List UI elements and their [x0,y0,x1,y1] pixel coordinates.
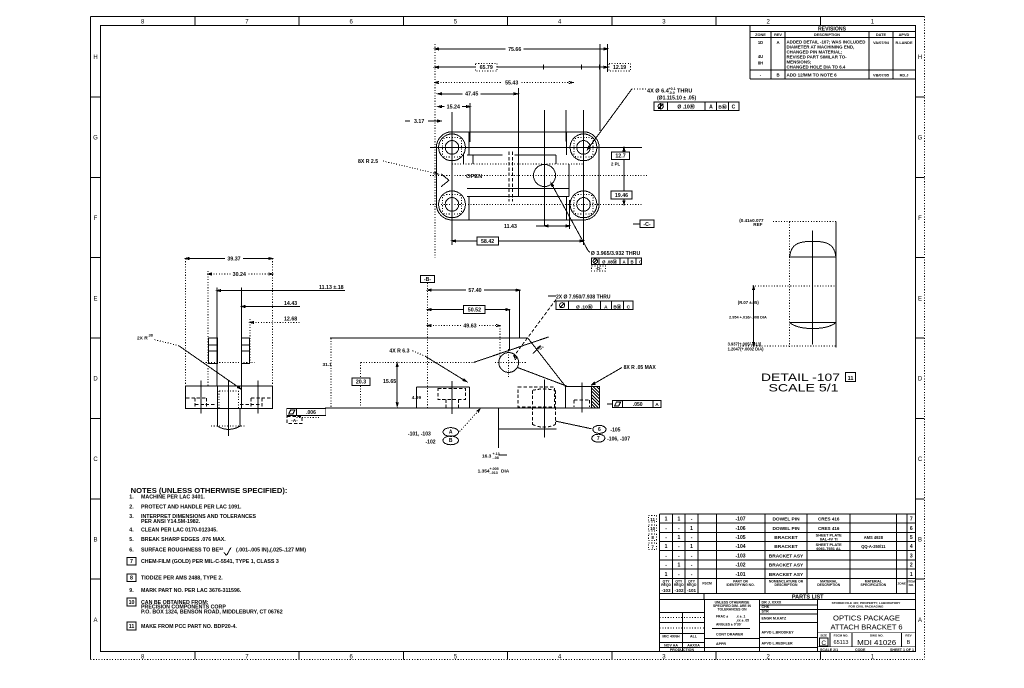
svg-text:5: 5 [910,535,913,541]
plate outline [436,132,599,220]
dim 12.68 [250,321,300,323]
svg-text:RD.J: RD.J [900,73,909,77]
svg-text:10: 10 [129,600,135,606]
sheet outer border [91,16,925,18]
leaders to holes [514,300,556,357]
lower dims 16.3 and 1.354 [497,429,499,448]
svg-text:-102: -102 [736,562,746,568]
svg-text:BRACKET ASY: BRACKET ASY [769,553,804,559]
svg-text:-101: -101 [687,588,697,593]
svg-text:CHEM-FILM (GOLD) PER MIL-C-554: CHEM-FILM (GOLD) PER MIL-C-5541, TYPE 1,… [141,559,279,565]
svg-text:P.O. BOX 1324, BENSON ROAD, MI: P.O. BOX 1324, BENSON ROAD, MIDDLEBURY, … [141,610,283,616]
svg-text:47.45: 47.45 [465,92,478,98]
svg-text:CRES 416: CRES 416 [818,526,840,531]
svg-text:APVD: APVD [899,33,910,37]
svg-text:1D: 1D [758,40,763,45]
svg-text:NO.: NO. [909,583,915,587]
svg-text:DATE: DATE [876,33,887,37]
detail dim line [753,286,755,346]
svg-text:1: 1 [665,544,668,550]
svg-text:11.43: 11.43 [504,224,517,230]
svg-text:A: A [776,40,779,45]
svg-text:REV: REV [905,633,911,637]
svg-text:1.2047(+.0002 DIA): 1.2047(+.0002 DIA) [728,346,765,351]
dome base line [790,256,836,258]
pin centerline [812,230,814,344]
balloons 6 and 7 [556,421,592,429]
bar tick lines [463,155,465,164]
svg-text:19.46: 19.46 [615,193,628,199]
svg-text:B: B [918,537,922,543]
svg-text:MACHINE PER LAC 3401.: MACHINE PER LAC 3401. [141,494,205,500]
svg-text:G: G [93,136,98,142]
dim 47.45 [438,93,518,95]
svg-text:AMS 4928: AMS 4928 [864,535,884,540]
svg-text:REQD: REQD [674,583,684,587]
svg-text:2.: 2. [129,504,134,510]
svg-text:F: F [94,216,98,222]
svg-text:9.: 9. [129,588,134,594]
svg-text:6.: 6. [129,547,134,553]
svg-text:DESCRIPTION: DESCRIPTION [814,33,840,37]
svg-text:75.66: 75.66 [508,47,521,53]
svg-text:NOV AA: NOV AA [664,643,678,647]
svg-text:4X Ø 6.4: 4X Ø 6.4 [647,88,670,94]
svg-text:1.354: 1.354 [478,468,490,474]
hidden press-fit hole dotted [219,390,238,392]
svg-text:6: 6 [598,427,601,433]
svg-text:APVD L.BRODKEY: APVD L.BRODKEY [762,631,795,635]
svg-text:20.3: 20.3 [356,380,366,386]
svg-text:PROTECT AND HANDLE PER LAC 109: PROTECT AND HANDLE PER LAC 1091. [141,504,242,510]
svg-text:A: A [709,105,713,111]
svg-text:MARK PART NO. PER LAC 3676-311: MARK PART NO. PER LAC 3676-311596. [141,588,242,594]
pin bottom arc [790,323,836,329]
svg-text:C: C [918,457,923,463]
svg-text:C: C [821,640,826,647]
svg-text:-0.0: -0.0 [669,91,675,95]
svg-text:11: 11 [650,517,655,522]
svg-text:E: E [93,296,97,302]
svg-text:OPEN: OPEN [466,174,482,180]
hole circle [499,353,519,373]
svg-text:-B-: -B- [424,277,431,283]
center post edges [216,288,218,387]
svg-text:7: 7 [910,517,913,523]
svg-text:DESCRIPTION: DESCRIPTION [775,583,799,587]
svg-text:ALL: ALL [690,635,698,639]
svg-text:6AL-4V TI: 6AL-4V TI [820,538,838,542]
note 2X dia 7.950 holes [548,295,556,297]
svg-text:2X Ø 7.950/7.938 THRU: 2X Ø 7.950/7.938 THRU [556,294,611,300]
svg-text:DOWEL PIN: DOWEL PIN [772,517,800,523]
svg-text:65113: 65113 [834,640,849,646]
svg-text:Ø .08Ⓜ: Ø .08Ⓜ [602,258,618,265]
svg-text:Ø 3.965/3.932 THRU: Ø 3.965/3.932 THRU [591,251,641,257]
corner bosses: counterbore circles [439,134,466,161]
slot bar edges [467,154,502,156]
svg-text:-101: -101 [736,572,746,578]
dim 20.3 boxed [352,378,370,386]
svg-text:1: 1 [910,572,913,578]
svg-text:ADD 12/MM TO NOTE 6: ADD 12/MM TO NOTE 6 [787,72,838,77]
svg-text:-105: -105 [610,427,620,433]
svg-text:39.37: 39.37 [227,256,240,262]
svg-text:1: 1 [690,544,693,550]
svg-text:VB/07/95: VB/07/95 [873,73,890,77]
side view body hidden outline [184,259,186,387]
svg-text:AAXXA: AAXXA [687,643,700,647]
revision block [749,26,751,80]
svg-text:6: 6 [910,526,913,532]
svg-text:1: 1 [690,526,693,532]
dim 12.7 boxed 2 PL [623,147,625,204]
dim 58.42 boxed [452,240,584,242]
svg-text:58.42: 58.42 [481,239,494,245]
svg-text:FSCM NO.: FSCM NO. [834,633,849,637]
svg-text:DWG NO.: DWG NO. [870,633,884,637]
ref line bottom [740,345,836,347]
svg-text:CHANGED HOLE DIA TO 6.4: CHANGED HOLE DIA TO 6.4 [787,65,846,70]
svg-text:-104: -104 [736,544,746,550]
main outline [330,337,528,339]
svg-text:30.24: 30.24 [233,272,246,278]
svg-text:APVD L.REDFLER: APVD L.REDFLER [762,642,794,646]
svg-text:FOR CIVIL PACKAGING: FOR CIVIL PACKAGING [849,604,885,608]
svg-text:4U: 4U [758,54,763,59]
svg-text:SURFACE ROUGHNESS TO BE: SURFACE ROUGHNESS TO BE [141,547,220,553]
svg-text:8X R .05 MAX: 8X R .05 MAX [624,365,657,371]
dim 11.13 +-.18 [217,290,345,292]
dim 14.43 [242,306,301,308]
svg-text:H: H [93,55,97,61]
svg-text:E: E [918,296,922,302]
svg-text:PARTS LIST: PARTS LIST [792,595,824,601]
svg-text:A: A [93,618,97,624]
svg-text:ENGR M.KATZ: ENGR M.KATZ [762,617,787,621]
base plate [185,386,272,409]
svg-text:REQD: REQD [661,583,671,587]
svg-text:8H: 8H [758,61,763,66]
svg-text:B: B [630,259,633,264]
svg-text:-101, -103: -101, -103 [408,431,431,437]
svg-text:CODE: CODE [855,648,866,652]
svg-text:65.79: 65.79 [480,65,493,71]
svg-text:FSCM: FSCM [702,581,712,585]
svg-text:55.43: 55.43 [505,80,518,86]
svg-text:MAKE FROM PCC PART NO. BDP20-4: MAKE FROM PCC PART NO. BDP20-4. [141,624,237,630]
svg-text:ANGLES ± 0°30´: ANGLES ± 0°30´ [716,623,742,627]
svg-text:1: 1 [677,535,680,541]
svg-text:BRACKET: BRACKET [774,535,798,541]
svg-text:3: 3 [910,553,913,559]
svg-text:DESCRIPTION: DESCRIPTION [817,583,841,587]
hidden pocket detail [438,389,466,400]
svg-text:Ø .10Ⓜ: Ø .10Ⓜ [677,104,694,111]
dim 50.52 boxed [428,309,510,311]
zone tick marks and labels [194,17,196,26]
section hatch [592,386,600,408]
svg-text:MIC 4XNH: MIC 4XNH [662,635,680,639]
title block [659,600,661,652]
svg-text:VA/07/94: VA/07/94 [873,41,890,45]
svg-text:1.: 1. [129,494,134,500]
svg-text:TIODIZE PER AMS 2488, TYPE 2.: TIODIZE PER AMS 2488, TYPE 2. [141,576,223,582]
svg-text:4: 4 [910,544,913,550]
svg-text:5.: 5. [129,537,134,543]
note 7 [127,557,136,565]
dim 75.66 [435,48,608,50]
svg-text:C: C [627,304,631,310]
svg-text:B: B [907,640,911,646]
svg-text:C: C [93,457,98,463]
svg-text:R.LANDE: R.LANDE [895,41,912,45]
V-notch left edge (OPEN slot entry) [441,174,449,187]
svg-text:3.: 3. [129,514,134,520]
svg-text:7: 7 [130,559,133,565]
ref line mid [752,285,836,287]
svg-text:REV: REV [774,33,782,37]
svg-text:CONT DRAWER: CONT DRAWER [716,633,744,637]
svg-text:4X R 6.3: 4X R 6.3 [389,348,409,354]
leader to top-right boss [632,88,646,90]
hidden slot in step [574,399,589,401]
size fscm dwg no rev [829,633,831,647]
svg-text:57.40: 57.40 [468,288,481,294]
pin right edge [835,222,837,348]
svg-text:SHEET 1 OF 1: SHEET 1 OF 1 [890,648,914,652]
svg-text:1: 1 [665,572,668,578]
pin top ref line [773,221,836,223]
hidden step lines in base [186,397,206,399]
svg-text:8X R 2.5: 8X R 2.5 [358,159,378,165]
svg-text:ZONE: ZONE [755,33,766,37]
svg-text:A: A [918,618,922,624]
note 10 [127,598,136,606]
svg-text:12.68: 12.68 [284,317,297,323]
svg-text:IDENTIFYING NO.: IDENTIFYING NO. [726,583,754,587]
datum -C- [640,220,654,227]
svg-text:-103: -103 [736,553,746,559]
svg-text:BRACKET ASY: BRACKET ASY [769,562,804,568]
svg-text:CLEAN PER LAC 0170-012345.: CLEAN PER LAC 0170-012345. [141,527,218,533]
svg-text:16.3: 16.3 [482,453,492,459]
svg-text:BREAK SHARP EDGES .076 MAX.: BREAK SHARP EDGES .076 MAX. [141,537,226,543]
svg-text:.006: .006 [306,410,316,416]
svg-text:DIA: DIA [501,468,510,474]
svg-text:D: D [918,377,923,383]
dim 49.63 [428,325,500,327]
svg-text:SPECIFICATION: SPECIFICATION [860,583,886,587]
dim 15.24 [438,106,470,108]
svg-text:15.24: 15.24 [447,105,460,111]
svg-text:-.013: -.013 [490,471,498,475]
svg-text:-103: -103 [661,588,671,593]
svg-text:2: 2 [910,562,913,568]
svg-text:APPR: APPR [716,642,726,646]
flatness frame right [613,400,661,407]
pin lower line [790,322,836,324]
svg-text:QQ-A-250/11: QQ-A-250/11 [861,544,886,549]
note dia 3.965 hole [551,183,588,251]
svg-text:ZONE: ZONE [898,581,906,585]
svg-text:1: 1 [677,517,680,523]
svg-text:REF: REF [753,222,762,227]
dim 55.43 [435,82,573,84]
svg-text:G: G [918,136,923,142]
svg-text:32: 32 [219,547,223,551]
note flags beside parts list [649,516,657,522]
sheet inner border [101,26,916,652]
svg-text:31.1: 31.1 [323,362,333,368]
svg-text:C: C [732,105,736,111]
svg-text:-D-: -D- [596,266,603,271]
corner pad edges [468,132,470,155]
svg-text:REVISIONS: REVISIONS [818,26,847,32]
svg-text:THRU: THRU [677,88,692,94]
svg-text:B: B [93,537,97,543]
svg-text:-C-: -C- [643,222,650,228]
dowel pin below base [217,408,219,426]
dim 30.24 [208,273,272,275]
svg-text:1: 1 [677,562,680,568]
parts list table [659,514,661,600]
centerlines [430,146,642,148]
svg-text:DOWEL PIN: DOWEL PIN [772,526,800,532]
pin dome top [790,241,836,256]
svg-text:8: 8 [130,576,133,582]
svg-text:-A-: -A- [291,418,298,424]
dim 65.79 boxed + 12.19 boxed [435,66,630,68]
svg-text:ATTACH BRACKET 6: ATTACH BRACKET 6 [831,622,903,631]
svg-text:-106: -106 [736,526,746,532]
svg-text:-107: -107 [736,517,746,523]
svg-text:-102: -102 [674,588,684,593]
svg-text:STR: STR [762,610,770,614]
svg-text:A: A [655,402,659,408]
svg-text:MDI 41026: MDI 41026 [857,638,896,647]
svg-text:B: B [776,72,779,77]
svg-text:A: A [449,430,453,436]
svg-text:12.7: 12.7 [615,154,625,160]
long hidden centerline [361,361,474,363]
dim 39.37 [185,258,272,260]
pocket outline [417,386,470,388]
svg-text:15.65: 15.65 [383,379,396,385]
svg-text:F: F [918,216,922,222]
svg-text:SCALE 2/1: SCALE 2/1 [820,648,838,652]
svg-text:14.43: 14.43 [284,301,297,307]
center hole [534,165,556,187]
svg-text:H: H [918,55,922,61]
dim 19.46 boxed [611,191,632,199]
svg-text:A: A [604,304,608,310]
svg-text:BⓂ: BⓂ [613,303,621,310]
svg-text:FRAC ±: FRAC ± [716,615,728,619]
svg-text:.050: .050 [633,402,643,408]
svg-text:-105: -105 [736,535,746,541]
boss and pin below bottom [497,408,499,429]
svg-text:.38: .38 [148,334,154,338]
svg-text:3.17: 3.17 [414,119,424,125]
note 8 [127,574,136,582]
svg-text:(.001-.005 IN),(.025-.127 MM): (.001-.005 IN),(.025-.127 MM) [236,547,306,553]
svg-text:2.954 +.016/-.008 DIA: 2.954 +.016/-.008 DIA [729,316,767,320]
svg-text:A: A [622,259,625,264]
svg-text:-106, -107: -106, -107 [607,437,630,443]
hidden pocket at plate bottom [518,387,554,407]
svg-text:BRACKET: BRACKET [774,544,798,550]
svg-text:2 PL: 2 PL [611,162,620,167]
svg-text:CRES 416: CRES 416 [818,517,840,522]
svg-text:REQD: REQD [687,583,697,587]
svg-text:BRACKET ASY: BRACKET ASY [769,572,804,578]
right step block with hatching [565,385,599,387]
svg-text:OPTICS PACKAGE: OPTICS PACKAGE [833,613,900,622]
svg-text:10: 10 [650,526,656,531]
dim 57.40 [428,289,520,291]
svg-text:4.: 4. [129,527,134,533]
svg-text:(Ø1.115.10 ± .05): (Ø1.115.10 ± .05) [657,96,696,102]
svg-text:BⓂ: BⓂ [718,104,726,111]
svg-text:11: 11 [848,376,854,382]
svg-text:11.13 ±.18: 11.13 ±.18 [319,285,344,291]
svg-text:6061-T651 AL: 6061-T651 AL [816,547,841,551]
left contract table [681,613,683,652]
note 11 [127,622,136,630]
datum -B- [421,276,435,283]
svg-text:-.08: -.08 [493,456,499,460]
svg-text:C: C [639,259,642,264]
svg-text:(R.07 ±.05): (R.07 ±.05) [738,300,760,305]
svg-text:DR J. XXXX: DR J. XXXX [762,601,782,605]
flatness frame left with -A- [287,408,326,415]
pin left hidden edge [789,222,791,348]
svg-text:CHK: CHK [762,605,770,609]
svg-text:SCALE 5/1: SCALE 5/1 [769,383,839,395]
svg-text:PER ANSI Y14.5M-1982.: PER ANSI Y14.5M-1982. [141,519,201,525]
svg-text:TOLERANCES ON: TOLERANCES ON [717,608,747,612]
svg-text:D: D [93,377,98,383]
svg-text:49.63: 49.63 [463,324,476,330]
svg-text:50.52: 50.52 [468,308,481,314]
svg-text:B: B [449,438,453,444]
svg-text:11: 11 [129,624,135,630]
svg-text:4.99: 4.99 [412,395,422,401]
svg-text:-102: -102 [426,440,436,446]
svg-text:12.19: 12.19 [613,65,626,71]
svg-text:SIZE: SIZE [820,633,827,637]
side tabs [209,338,218,364]
svg-text:Ø .10Ⓜ: Ø .10Ⓜ [576,303,593,310]
GD&T frame for 4X holes [654,102,739,111]
svg-text:1: 1 [665,517,668,523]
svg-text:PRODUCTION: PRODUCTION [670,648,695,652]
svg-text:7: 7 [597,436,600,442]
